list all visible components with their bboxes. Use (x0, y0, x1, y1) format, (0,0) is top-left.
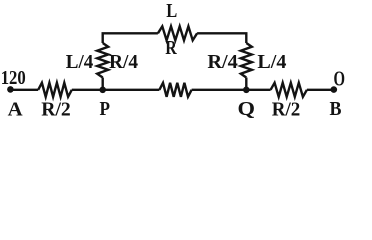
wire right R/2 to B (307, 89, 334, 91)
svg-text:A: A (8, 98, 24, 119)
svg-text:O: O (334, 67, 346, 91)
wire right vertical resistor down to Q (245, 78, 247, 90)
svg-text:R/2: R/2 (272, 99, 301, 120)
svg-text:L/4: L/4 (257, 51, 286, 73)
svg-text:R/2: R/2 (41, 99, 71, 120)
node P junction dot (99, 87, 106, 94)
wire top resistor to right corner down (197, 33, 246, 43)
resistor R/4 (right vertical branch) (241, 43, 252, 78)
wire P up to left vertical resistor (101, 78, 103, 90)
wire left corner to top resistor (103, 33, 158, 43)
resistor R/2 (left bottom) (38, 83, 72, 97)
svg-text:Q: Q (238, 98, 256, 119)
node A terminal dot (7, 86, 14, 93)
node Q junction dot (243, 87, 250, 94)
resistor (middle bottom, between P and Q) (159, 83, 191, 97)
svg-text:P: P (99, 98, 110, 119)
svg-text:120: 120 (1, 67, 26, 89)
wire left R/2 through node P to middle resistor (72, 89, 160, 91)
svg-text:B: B (330, 98, 342, 119)
svg-text:R/4: R/4 (207, 51, 238, 73)
resistor R/4 (left vertical branch) (97, 43, 108, 78)
svg-text:R: R (165, 37, 177, 59)
svg-text:L/4: L/4 (66, 51, 94, 73)
svg-text:R/4: R/4 (109, 51, 138, 73)
wire middle resistor through node Q to right R/2 (192, 89, 271, 91)
svg-text:L: L (166, 0, 177, 22)
resistor R (top) (158, 26, 197, 40)
node B terminal dot (331, 86, 338, 93)
resistor R/2 (right bottom) (271, 83, 307, 97)
wire A to left R/2 (10, 89, 38, 91)
